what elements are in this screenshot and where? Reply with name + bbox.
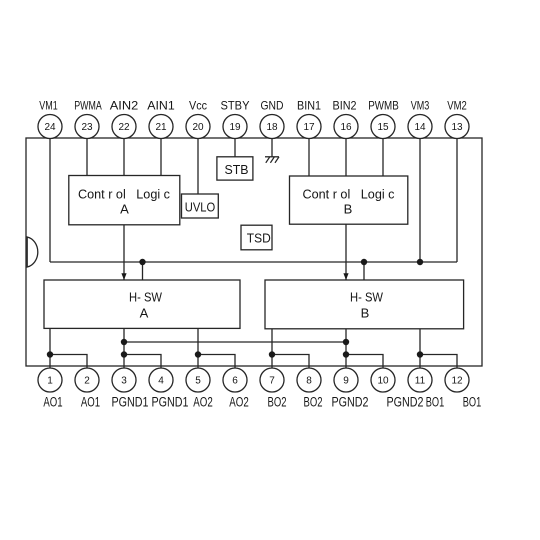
- svg-text:H- SW: H- SW: [350, 289, 384, 304]
- svg-text:B: B: [344, 201, 353, 216]
- junction dot PGND rail at pin9: [343, 339, 349, 345]
- pin 24 circle: [38, 115, 62, 139]
- svg-text:13: 13: [451, 122, 463, 133]
- svg-text:Vcc: Vcc: [189, 99, 207, 113]
- svg-text:H- SW: H- SW: [129, 289, 163, 304]
- wire to pin 4 PGND1: [124, 355, 161, 369]
- pin 14 circle: [408, 115, 432, 139]
- svg-text:Cont r ol Logi c: Cont r ol Logi c: [303, 186, 395, 201]
- wire VM branch to H-SW B: [363, 262, 365, 280]
- svg-text:16: 16: [340, 122, 352, 133]
- arrowhead Control Logic B output: [343, 273, 348, 280]
- svg-text:AO1: AO1: [43, 394, 62, 409]
- svg-text:PGND2: PGND2: [332, 394, 369, 409]
- svg-text:PGND1: PGND1: [112, 394, 149, 409]
- pin 3 circle: [112, 368, 136, 392]
- pin 7 circle: [260, 368, 284, 392]
- junction dot pin1/pin2: [47, 351, 53, 357]
- svg-text:20: 20: [192, 122, 204, 133]
- wire VM branch to H-SW A: [142, 262, 144, 280]
- svg-text:14: 14: [414, 122, 426, 133]
- svg-text:23: 23: [81, 122, 93, 133]
- pin 19 circle: [223, 115, 247, 139]
- svg-text:1: 1: [47, 376, 53, 387]
- pin 23 circle: [75, 115, 99, 139]
- wire to pin 10 PGND2: [346, 355, 383, 369]
- svg-text:A: A: [120, 201, 129, 216]
- svg-text:PWMA: PWMA: [74, 99, 102, 113]
- svg-text:PGND2: PGND2: [387, 394, 424, 409]
- label H-SW A text: [129, 289, 163, 320]
- wire AIN2 pin22 to Control Logic A: [123, 138, 125, 176]
- pin-1 indicator notch: [27, 237, 38, 267]
- svg-text:9: 9: [343, 376, 349, 387]
- svg-text:A: A: [140, 306, 149, 321]
- pin 22 circle: [112, 115, 136, 139]
- wire VM rail node VM: [50, 261, 457, 263]
- wire H-SW A to pin 5 AO2: [197, 329, 199, 369]
- svg-text:Cont r ol Logi c: Cont r ol Logi c: [78, 186, 170, 201]
- block TSD: [241, 225, 272, 250]
- wire Control Logic B output to H-SW B: [345, 225, 347, 280]
- wire BIN1 pin17 to Control Logic B: [308, 138, 310, 176]
- svg-text:STB: STB: [225, 162, 249, 177]
- svg-text:B: B: [361, 306, 370, 321]
- junction dot pin9/pin10: [343, 351, 349, 357]
- junction dot VM at pin 14: [417, 259, 423, 265]
- pin 13 circle: [445, 115, 469, 139]
- block H-SW B: [265, 280, 464, 329]
- block H-SW A: [44, 280, 240, 328]
- svg-text:BIN2: BIN2: [333, 99, 357, 113]
- wire H-SW A to pin 1 AO1: [49, 329, 51, 369]
- svg-text:PWMB: PWMB: [368, 99, 399, 113]
- svg-text:AIN2: AIN2: [110, 99, 139, 113]
- svg-text:18: 18: [266, 122, 278, 133]
- wire H-SW A to pin 3 PGND1: [123, 329, 125, 369]
- wire PWMB pin15 to Control Logic B: [382, 138, 384, 176]
- label H-SW B text: [350, 289, 384, 320]
- svg-text:TSD: TSD: [247, 231, 271, 246]
- svg-text:AO1: AO1: [81, 394, 100, 409]
- pin 16 circle: [334, 115, 358, 139]
- svg-text:BO2: BO2: [304, 394, 323, 409]
- wire H-SW B to pin 9 PGND2: [345, 329, 347, 369]
- svg-text:6: 6: [232, 376, 238, 387]
- svg-text:VM1: VM1: [39, 99, 58, 113]
- pin 8 circle: [297, 368, 321, 392]
- svg-text:21: 21: [155, 122, 167, 133]
- wire to pin 8 BO2: [272, 355, 309, 369]
- label Control Logic B text: [303, 186, 395, 216]
- junction dot VM to H-SW B: [361, 259, 367, 265]
- svg-text:BO1: BO1: [463, 394, 482, 409]
- svg-text:24: 24: [44, 122, 56, 133]
- wire AIN1 pin21 to Control Logic A: [160, 138, 162, 176]
- pin 20 circle: [186, 115, 210, 139]
- svg-text:12: 12: [451, 376, 463, 387]
- svg-text:AIN1: AIN1: [147, 99, 175, 113]
- label Control Logic A text: [78, 186, 170, 216]
- pin 1 circle: [38, 368, 62, 392]
- svg-text:PGND1: PGND1: [152, 394, 189, 409]
- wire Control Logic A output to H-SW A: [123, 225, 125, 280]
- pin 2 circle: [75, 368, 99, 392]
- pin 18 circle: [260, 115, 284, 139]
- pin 12 circle: [445, 368, 469, 392]
- pin 10 circle: [371, 368, 395, 392]
- junction dot PGND rail at pin3: [121, 339, 127, 345]
- pin 9 circle: [334, 368, 358, 392]
- svg-text:BO1: BO1: [426, 394, 445, 409]
- wire H-SW B to pin 11 BO1: [419, 329, 421, 369]
- svg-text:GND: GND: [261, 99, 284, 113]
- wire to pin 12 BO1: [420, 355, 457, 369]
- wire PWMA pin23 to Control Logic A: [86, 138, 88, 176]
- svg-text:AO2: AO2: [229, 394, 249, 409]
- wire PGND rail node PGND: [124, 341, 346, 343]
- svg-text:VM3: VM3: [411, 99, 430, 113]
- junction dot VM to H-SW A: [139, 259, 145, 265]
- svg-text:7: 7: [269, 376, 275, 387]
- wire to pin 2 AO1: [50, 355, 87, 369]
- wire STBY pin19 to STB: [234, 138, 236, 157]
- svg-text:19: 19: [229, 122, 241, 133]
- pin 15 circle: [371, 115, 395, 139]
- svg-text:BO2: BO2: [268, 394, 287, 409]
- junction dot pin11/pin12: [417, 351, 423, 357]
- junction dot pin5/pin6: [195, 351, 201, 357]
- wire H-SW B to pin 7 BO2: [271, 329, 273, 369]
- wire Vcc pin20 to UVLO: [197, 138, 199, 194]
- pin 21 circle: [149, 115, 173, 139]
- ground symbol at GND pin 18: [265, 138, 279, 163]
- svg-text:3: 3: [121, 376, 127, 387]
- svg-text:5: 5: [195, 376, 201, 387]
- wire to pin 6 AO2: [198, 355, 235, 369]
- svg-text:4: 4: [158, 376, 164, 387]
- pin 6 circle: [223, 368, 247, 392]
- IC body U1 outline: [26, 138, 482, 366]
- svg-text:UVLO: UVLO: [185, 200, 216, 215]
- svg-text:BIN1: BIN1: [297, 99, 321, 113]
- junction dot pin3/pin4: [121, 351, 127, 357]
- block Control Logic B: [290, 176, 408, 224]
- pin 11 circle: [408, 368, 432, 392]
- svg-text:17: 17: [303, 122, 315, 133]
- svg-text:15: 15: [377, 122, 389, 133]
- arrowhead Control Logic A output: [121, 273, 126, 280]
- block UVLO: [182, 194, 219, 218]
- pin 17 circle: [297, 115, 321, 139]
- svg-text:VM2: VM2: [447, 99, 467, 113]
- wire VM2 pin13 down to VM rail: [456, 138, 458, 262]
- svg-text:AO2: AO2: [193, 394, 213, 409]
- svg-text:22: 22: [118, 122, 130, 133]
- svg-text:8: 8: [306, 376, 312, 387]
- block STB: [217, 157, 253, 180]
- block Control Logic A: [69, 176, 180, 225]
- svg-text:2: 2: [84, 376, 90, 387]
- pin 5 circle: [186, 368, 210, 392]
- wire BIN2 pin16 to Control Logic B: [345, 138, 347, 176]
- svg-text:STBY: STBY: [221, 99, 250, 113]
- wire VM1 pin24 down: [49, 138, 51, 262]
- svg-text:10: 10: [377, 376, 389, 387]
- svg-text:11: 11: [415, 376, 426, 387]
- pin 4 circle: [149, 368, 173, 392]
- junction dot pin7/pin8: [269, 351, 275, 357]
- wire VM3 pin14 down to VM rail: [419, 138, 421, 262]
